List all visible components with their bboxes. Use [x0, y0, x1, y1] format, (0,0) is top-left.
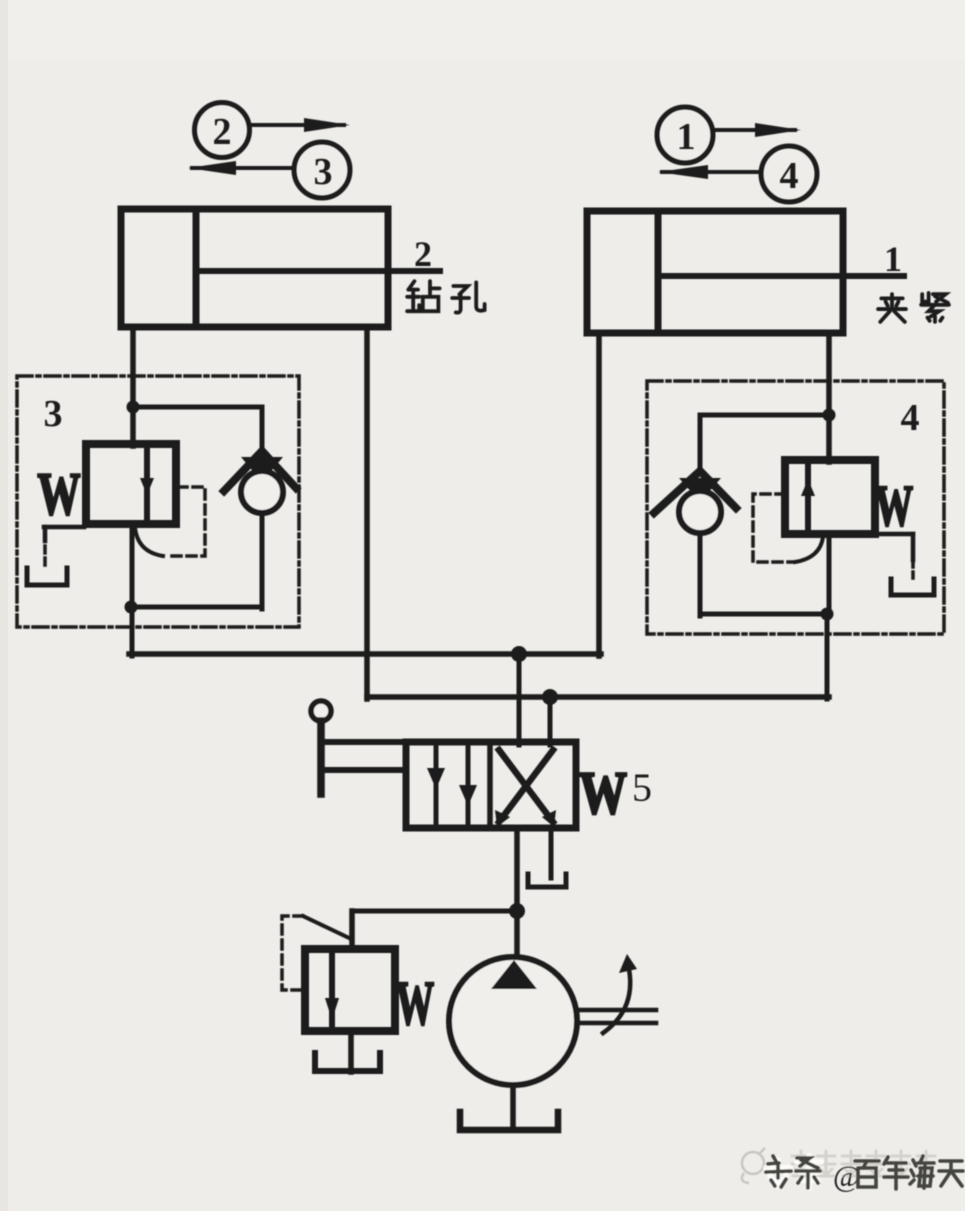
svg-text:W: W — [396, 970, 434, 1039]
svg-text:W: W — [875, 473, 913, 538]
svg-text:2: 2 — [414, 234, 432, 274]
svg-text:2: 2 — [213, 111, 232, 153]
svg-text:4: 4 — [901, 397, 920, 439]
svg-text:1: 1 — [677, 116, 696, 158]
svg-text:W: W — [579, 760, 627, 826]
svg-text:3: 3 — [44, 393, 63, 435]
svg-text:W: W — [37, 461, 80, 528]
svg-text:4: 4 — [780, 155, 799, 197]
svg-text:5: 5 — [632, 765, 652, 810]
svg-text:3: 3 — [314, 151, 333, 193]
svg-text:1: 1 — [884, 239, 902, 279]
